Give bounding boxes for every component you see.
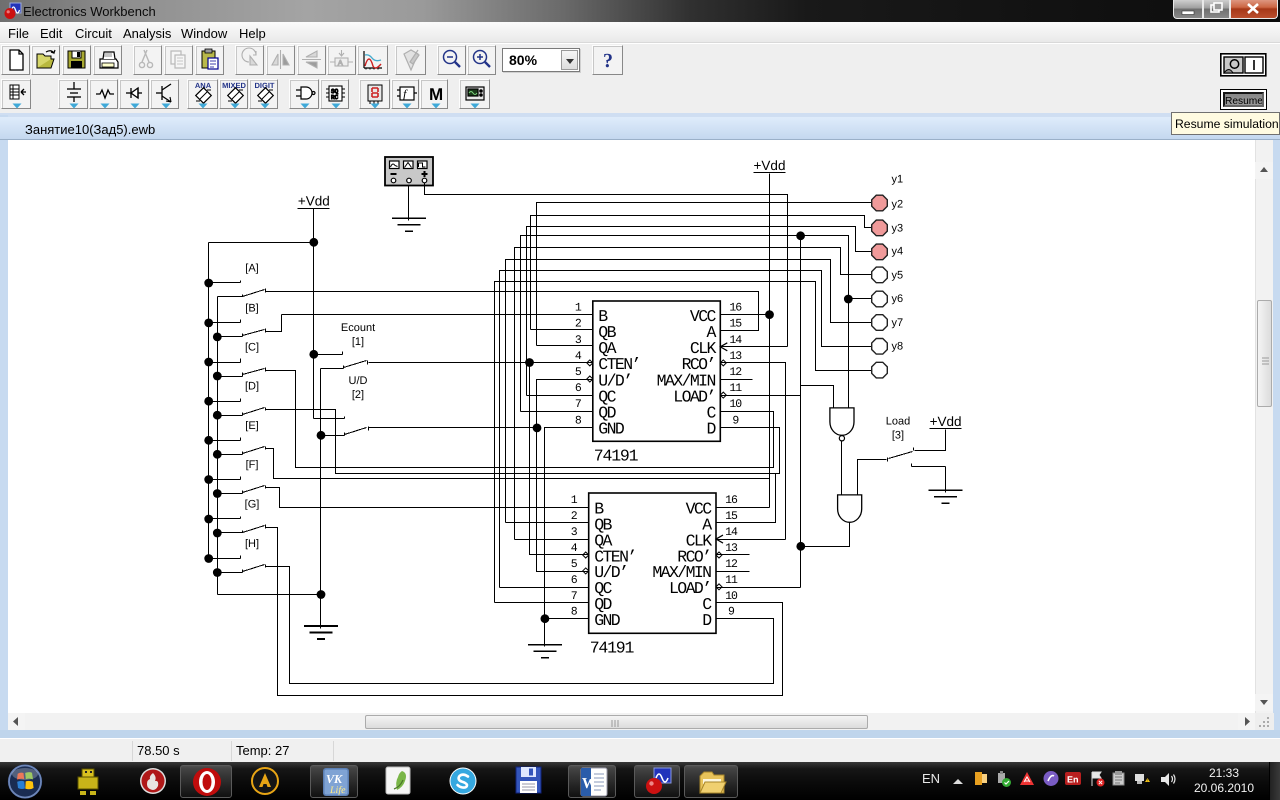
node QD1 net at LED y5 <box>844 295 853 304</box>
toolbar flip vertical (disabled) <box>297 45 326 75</box>
switch [D] pole tick <box>265 408 267 411</box>
svg-text:12: 12 <box>729 366 742 379</box>
switch [E] lower contact stub <box>218 454 243 456</box>
wire switch A pole to A1 pin15 <box>267 292 759 331</box>
svg-text:[B]: [B] <box>245 302 258 314</box>
app icon Electronics Workbench <box>4 2 22 20</box>
toolbar rotate (disabled) <box>235 45 264 75</box>
svg-text:8: 8 <box>575 414 582 427</box>
wire switch C pole to C1 pin10 <box>267 371 774 468</box>
switch Load arm <box>889 452 913 459</box>
node VCC1 junction on +Vdd line <box>765 310 774 319</box>
switch [D] lower contact stub <box>218 415 243 417</box>
svg-text:y6: y6 <box>892 293 904 305</box>
parts bin logic gates <box>289 79 319 109</box>
taskbar icon opera active <box>180 765 232 798</box>
U1 RCO active-low diamond <box>720 360 726 366</box>
node switch [F] on +Vdd bus <box>204 475 213 484</box>
start orb <box>6 764 46 800</box>
node switch [G] on ground chain <box>213 529 222 538</box>
switch [G] lower contact stub <box>218 532 243 534</box>
wire U3 output to U4 input <box>841 441 843 495</box>
toolbar zoom in <box>467 45 496 75</box>
XFG1 triangle button <box>404 161 414 169</box>
wire U/D pole to U/D pins <box>369 427 537 429</box>
taskbar icon VKlife active <box>310 765 358 798</box>
switch [A] lower contact stub <box>218 296 243 298</box>
toolbar analysis graph <box>357 45 388 75</box>
parts bin digital <box>320 79 349 109</box>
wire QA1 pin3 stub <box>537 345 593 347</box>
wire A2 pin15 tap from D net <box>717 474 776 523</box>
parts bin analog ICs <box>187 79 218 109</box>
svg-text:[G]: [G] <box>245 499 260 511</box>
U1 CLK edge arrow <box>720 343 727 351</box>
svg-text:En: En <box>1067 775 1079 785</box>
switch U/D lower contact stub <box>321 435 345 437</box>
svg-text:+Vdd: +Vdd <box>754 158 786 173</box>
svg-text:11: 11 <box>725 574 738 587</box>
wire QC1 net: staircase level 226.5 to LED y3 <box>527 227 872 396</box>
svg-text:12: 12 <box>725 558 738 571</box>
Resume button <box>1220 89 1267 110</box>
svg-text:Life: Life <box>329 785 346 796</box>
svg-text:y5: y5 <box>892 270 904 282</box>
ground GND below U2 <box>544 645 546 647</box>
LED probe y2 <box>872 220 888 236</box>
XFG1 plus terminal <box>422 178 427 183</box>
wire XFG1 common to ground <box>408 186 410 219</box>
node switch [D] on ground chain <box>213 411 222 420</box>
wire MAX/MIN1 pin12 stub <box>721 379 753 381</box>
wire Load lower contact to ground <box>945 467 947 491</box>
wire switch F pole to B2 pin1 <box>267 488 589 508</box>
svg-text:[E]: [E] <box>245 420 258 432</box>
wire GND2 to ground symbol <box>544 619 546 645</box>
wire CLK2 pin14 stub <box>717 539 786 541</box>
toolbar zoom combobox <box>502 48 580 72</box>
node switch [H] on ground chain <box>213 568 222 577</box>
svg-text:8: 8 <box>571 606 578 619</box>
svg-text:y7: y7 <box>892 317 904 329</box>
switch [D] upper contact stub <box>209 401 241 403</box>
toolbar new file <box>1 45 30 75</box>
node LOAD chain at gate2 output <box>796 542 805 551</box>
wire B1 pin1 from switch B <box>282 314 593 316</box>
switch [C] upper contact stub <box>209 362 241 364</box>
svg-text:[1]: [1] <box>352 336 364 348</box>
svg-text:74191: 74191 <box>590 638 635 657</box>
svg-text:5: 5 <box>571 558 578 571</box>
wire QA2 pin3 stub <box>515 539 589 541</box>
node switch [A] on +Vdd bus <box>204 279 213 288</box>
U2 LOAD active-low diamond <box>716 584 722 590</box>
wire QD2 net: staircase level 281.7 to LED y8 <box>495 282 872 603</box>
wire VDD2 down to VCC pins (x=769.5) <box>769 174 771 508</box>
switch [E] upper contact stub <box>209 440 241 442</box>
LED probe y7 <box>872 339 888 355</box>
switch [D] arm <box>243 408 265 415</box>
taskbar icon feather app <box>378 765 418 798</box>
ground GND under XFG1 <box>408 219 410 221</box>
wire RCO2 pin13 stub <box>717 554 750 556</box>
svg-text:5: 5 <box>575 366 582 379</box>
LED probe y1 <box>872 195 888 211</box>
wire CTEN2 drop <box>530 363 589 555</box>
node QD1 net at x=800 <box>796 231 805 240</box>
node switch [B] on +Vdd bus <box>204 319 213 328</box>
taskbar icon AIMP <box>245 765 285 798</box>
svg-text:2: 2 <box>575 318 582 331</box>
svg-text:[2]: [2] <box>352 389 364 401</box>
toolbar cut (disabled) <box>133 45 162 75</box>
parts bin mixed ICs <box>219 79 248 109</box>
switch Ecount arm <box>344 361 367 368</box>
node switch [D] on +Vdd bus <box>204 397 213 406</box>
svg-text:7: 7 <box>571 590 577 603</box>
toolbar paste <box>195 45 224 75</box>
svg-text:?: ? <box>603 50 613 72</box>
svg-text:16: 16 <box>729 302 742 315</box>
svg-text:4: 4 <box>575 350 582 363</box>
svg-text:[3]: [3] <box>892 430 904 442</box>
parts bin indicators <box>359 79 390 109</box>
wire LOAD1 pin11 stub <box>721 395 801 397</box>
wire gate U3 input A feed <box>801 386 834 408</box>
switch [B] pole tick <box>265 329 267 333</box>
toolbar help <box>592 45 623 75</box>
taskbar icon robot app <box>68 765 108 798</box>
XFG1 sine button <box>390 161 400 169</box>
wire LOAD chain vertical x=800.8 <box>800 236 802 588</box>
wire U/D riser to U/D1 pin5 <box>537 380 593 428</box>
svg-text:3: 3 <box>571 526 578 539</box>
svg-text:14: 14 <box>725 526 738 539</box>
svg-text:RC: RC <box>331 94 339 101</box>
U1 U/D active-low diamond <box>587 376 593 382</box>
svg-text:74191: 74191 <box>594 446 639 465</box>
switch [H] upper contact stub <box>209 558 241 560</box>
wire switch G pole to C2 pin10 <box>267 528 783 696</box>
wire U/D riser to U/D2 pin5 <box>537 428 589 572</box>
taskbar icon explorer active <box>684 765 738 798</box>
svg-text:[H]: [H] <box>245 538 259 550</box>
U1 CTEN active-low diamond <box>587 360 593 366</box>
node U/D riser junction <box>533 424 542 433</box>
node switch [F] on ground chain <box>213 489 222 498</box>
node CTEN junction <box>525 358 534 367</box>
U2 CTEN active-low diamond <box>583 552 589 558</box>
wire QA1 net: staircase level 203 to LED y1 <box>537 203 872 346</box>
wire RCO1 pin13 to CLK2 <box>721 363 786 540</box>
wire VCC1 pin16 stub <box>721 314 770 316</box>
node GND2 junction <box>541 614 550 623</box>
svg-text:2: 2 <box>571 510 578 523</box>
power rocker switch <box>1220 53 1267 77</box>
svg-text:1: 1 <box>571 494 578 507</box>
wire QD1 pin7 stub <box>521 411 593 413</box>
toolbar flip horizontal (disabled) <box>266 45 295 75</box>
IC U1 74191 body <box>593 301 721 441</box>
tray icon clipboard <box>1110 770 1128 793</box>
switch [G] arm <box>243 526 265 533</box>
tray language indicator <box>922 771 940 786</box>
switch [G] pole tick <box>265 525 267 529</box>
switch Load pole tick <box>887 458 889 462</box>
switch U/D pole tick <box>368 427 370 431</box>
node VDD1 bus junction <box>309 238 318 247</box>
svg-text:[A]: [A] <box>245 263 258 275</box>
instrument XFG1 function generator body <box>385 157 433 186</box>
svg-text:1: 1 <box>575 302 582 315</box>
show desktop button <box>1269 762 1280 800</box>
toolbar subcircuit (disabled) <box>327 45 356 75</box>
svg-text:y3: y3 <box>892 222 904 234</box>
switch [A] upper contact stub <box>209 282 241 284</box>
toolbar save <box>62 45 91 75</box>
tray icon usb <box>994 770 1012 793</box>
wire switch B pole jog <box>267 315 282 332</box>
tray clock <box>1185 766 1263 780</box>
parts bin miscellaneous <box>420 79 448 109</box>
wire QA2 net: staircase level 247.4 to LED y4 <box>515 248 872 540</box>
U1 LOAD active-low diamond <box>720 392 726 398</box>
parts bin sources <box>58 79 88 109</box>
switch [C] arm <box>243 369 265 375</box>
gate U4 AND body <box>838 495 862 522</box>
svg-text:15: 15 <box>729 318 742 331</box>
node switch [E] on +Vdd bus <box>204 436 213 445</box>
switch [A] pole tick <box>265 289 267 293</box>
LED probe y5 <box>872 291 888 307</box>
wire VDD3 to Load upper contact <box>915 430 946 451</box>
switch Ecount upper contact stub <box>314 354 343 356</box>
XFG1 plus label <box>422 173 428 175</box>
parts bin diodes <box>119 79 149 109</box>
wire GND1 pin8 chain <box>545 428 593 619</box>
svg-text:7: 7 <box>575 398 581 411</box>
switch [B] lower contact stub <box>218 336 243 338</box>
caption buttons <box>1173 0 1203 19</box>
node switch [G] on +Vdd bus <box>204 515 213 524</box>
svg-text:U/D: U/D <box>349 375 368 387</box>
svg-text:y2: y2 <box>892 198 904 210</box>
toolbar copy (disabled) <box>164 45 193 75</box>
switch [F] upper contact stub <box>209 479 241 481</box>
wire QD2 pin7 stub <box>495 602 589 604</box>
parts bin controls <box>391 79 419 109</box>
switch [E] pole tick <box>265 447 267 450</box>
tray icon network warning <box>1133 770 1151 793</box>
node switch [H] on +Vdd bus <box>204 554 213 563</box>
switch [C] pole tick <box>265 368 267 372</box>
parts bin digital ICs <box>249 79 278 109</box>
LED probe y8 <box>872 362 888 378</box>
toolbar print <box>93 45 122 75</box>
wire ground node down to symbol <box>320 595 322 627</box>
wire QB2 net: staircase level 259.1 to LED y6 <box>506 260 872 523</box>
switch [H] lower contact stub <box>218 572 243 574</box>
wire XFG1 plus output to CLK bus <box>425 183 788 347</box>
switch [H] pole tick <box>265 565 267 568</box>
wire VDD1 continues down to U/D contact <box>313 243 315 419</box>
svg-text:9: 9 <box>728 606 735 619</box>
wire QC2 pin6 stub <box>500 587 589 589</box>
parts bin favorites <box>1 79 31 109</box>
svg-text:GND: GND <box>594 611 621 630</box>
tray icon volume <box>1158 770 1176 793</box>
wire U4 output to LOAD node <box>801 523 850 547</box>
svg-text:Load: Load <box>886 416 910 428</box>
wire CLK1 pin14 stub <box>721 346 788 348</box>
svg-text:VK: VK <box>326 772 343 786</box>
parts bin instruments <box>459 79 490 109</box>
switch [A] arm <box>243 290 265 297</box>
svg-text:Ecount: Ecount <box>341 322 375 334</box>
wire left +Vdd bus horizontal <box>209 242 314 244</box>
svg-text:6: 6 <box>571 574 578 587</box>
switch [F] pole tick <box>265 486 267 489</box>
wire Load switch pole to U4 input <box>858 460 887 495</box>
wire QB1 pin2 stub <box>531 329 593 331</box>
svg-text:y8: y8 <box>892 341 904 353</box>
wire MAX/MIN2 pin12 stub <box>717 571 750 573</box>
svg-text:3: 3 <box>575 334 582 347</box>
wire left +Vdd bus vertical <box>208 243 210 559</box>
wire VDD1 down to bus node <box>313 209 315 243</box>
U2 CLK edge arrow <box>716 535 723 543</box>
wire QB1 net: staircase level 215 to LED y2 <box>531 216 872 330</box>
wire switch ground chain vertical <box>217 297 219 595</box>
U2 U/D active-low diamond <box>583 568 589 574</box>
taskbar icon skype <box>443 765 483 798</box>
gate U3 NAND body <box>830 408 854 435</box>
svg-text:6: 6 <box>575 382 582 395</box>
svg-text:[C]: [C] <box>245 342 259 354</box>
svg-text:GND: GND <box>598 420 625 439</box>
tray icon En language box <box>1064 770 1082 793</box>
svg-text:15: 15 <box>725 510 738 523</box>
svg-text:10: 10 <box>729 398 742 411</box>
node switch ground <box>317 590 326 599</box>
wire ground chain to ground node <box>218 594 321 596</box>
node switch [C] on +Vdd bus <box>204 358 213 367</box>
ground GND under Load switch <box>945 491 947 493</box>
svg-text:[D]: [D] <box>245 381 259 393</box>
LED probe y3 <box>872 244 888 260</box>
wire Ecount/UD chain to ground node <box>320 369 322 595</box>
svg-text:+Vdd: +Vdd <box>298 194 330 209</box>
switch Ecount lower contact stub <box>321 368 344 370</box>
taskbar icon Electronics Workbench active <box>634 765 680 798</box>
svg-text:9: 9 <box>732 414 739 427</box>
node switch [E] on ground chain <box>213 450 222 459</box>
wire switch E pole to +Vdd/VCC2 line <box>267 449 770 479</box>
node switch [B] on ground chain <box>213 333 222 342</box>
XFG1 common terminal <box>407 178 412 183</box>
node Ecount on +Vdd line <box>309 350 318 359</box>
LED probe y4 <box>872 267 888 283</box>
XFG1 minus terminal <box>391 178 396 183</box>
wire QB2 pin2 stub <box>506 522 589 524</box>
node U/D lower on ground chain <box>317 431 326 440</box>
svg-text:13: 13 <box>725 542 738 555</box>
gate U3 output bubble <box>839 436 844 441</box>
switch [E] arm <box>243 447 265 454</box>
ground GND under switches <box>320 627 322 629</box>
toolbar component properties (disabled) <box>395 45 426 75</box>
node switch [C] on ground chain <box>213 372 222 381</box>
parts bin transistors <box>150 79 179 109</box>
taskbar icon Word active <box>568 765 616 798</box>
toolbar open file <box>31 45 60 75</box>
svg-text:+Vdd: +Vdd <box>930 414 962 429</box>
XFG1 minus label <box>391 173 397 175</box>
svg-text:13: 13 <box>729 350 742 363</box>
XFG1 square button <box>418 161 428 169</box>
svg-text:y4: y4 <box>892 245 904 257</box>
svg-text:10: 10 <box>725 590 738 603</box>
wire VCC2 pin16 stub <box>717 507 770 509</box>
svg-text:16: 16 <box>725 494 738 507</box>
wire QC2 net: staircase level 270.4 to LED y7 <box>500 271 872 588</box>
switch [C] lower contact stub <box>218 376 243 378</box>
wire LOAD2 pin11 stub <box>717 587 801 589</box>
svg-text:y1: y1 <box>892 174 904 186</box>
switch U/D arm <box>345 428 367 435</box>
U2 RCO active-low diamond <box>716 552 722 558</box>
wire QC1 pin6 stub <box>527 395 593 397</box>
wire Ecount pole to CTEN pins <box>369 362 593 364</box>
toolbar zoom out <box>437 45 466 75</box>
switch [F] arm <box>243 486 265 493</box>
switch [G] upper contact stub <box>209 518 241 520</box>
svg-text:M: M <box>429 85 443 104</box>
svg-text:4: 4 <box>571 542 578 555</box>
switch U/D upper contact from +Vdd <box>314 418 345 420</box>
LED probe y6 <box>872 315 888 331</box>
svg-text:A: A <box>338 60 343 67</box>
svg-text:[F]: [F] <box>246 459 259 471</box>
wire switch D pole to D1 pin9 <box>267 410 780 474</box>
taskbar icon nero <box>133 765 173 798</box>
wire LED y5 stub <box>849 298 872 300</box>
svg-text:14: 14 <box>729 334 742 347</box>
wire GND2 pin8 stub <box>545 618 589 620</box>
wire switch H pole to D2 pin9 <box>267 567 774 684</box>
switch Load lower contact stub <box>911 464 913 467</box>
tray icon round app <box>1042 770 1060 793</box>
wire QD1 net: staircase level 236 to LED y5 and gate <box>521 236 849 412</box>
tray icon action center flag <box>1088 770 1106 793</box>
IC U2 74191 body <box>589 493 716 633</box>
svg-text:!: ! <box>1147 778 1148 783</box>
switch Ecount pole tick <box>367 361 369 365</box>
tray icon kaspersky <box>1018 770 1036 793</box>
switch [H] arm <box>243 565 265 572</box>
switch [F] lower contact stub <box>218 493 243 495</box>
taskbar icon floppy save <box>508 765 548 798</box>
tray icon charger <box>972 770 990 793</box>
parts bin basic <box>89 79 118 109</box>
switch [B] upper contact stub <box>209 322 241 324</box>
switch [B] arm <box>243 330 265 336</box>
svg-text:11: 11 <box>729 382 742 395</box>
